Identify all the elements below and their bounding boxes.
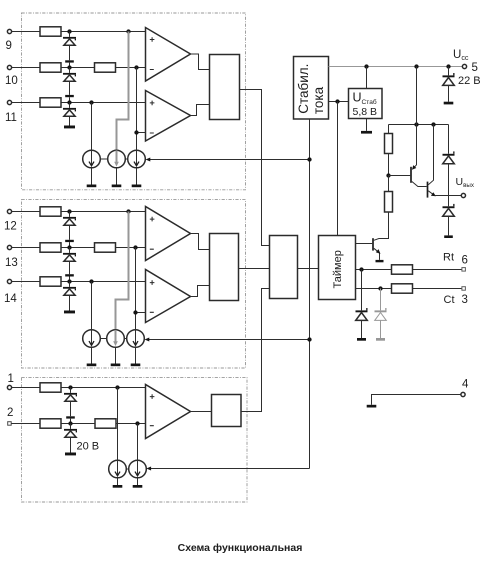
wire opamp U4 output to block A2 [191,286,210,297]
pin 6 terminal [462,268,466,272]
node on line 10 at zener chain [67,65,71,69]
wire timer to Ct resistor [356,288,392,290]
resistor R4 (vertical) [385,192,393,213]
arrow of current source I4 [89,330,94,346]
wire line 10 mid [61,67,95,69]
resistor R13 [40,243,61,252]
wire top rail of output stage [389,124,449,126]
wire I4 to I5 [100,338,106,340]
wire I2 to I3 [125,158,127,160]
wire (gray) line 12 to current source I5 [116,212,129,330]
dashed box: comparator group 1/2 [22,377,248,502]
svg-text:13: 13 [5,257,18,269]
wire Q2 emitter to Uout terminal [435,195,462,197]
svg-text:2: 2 [7,407,13,419]
wire pin 12 to opamp U3 + input [12,211,146,213]
wire pin 14 to opamp U4 + input [12,281,146,283]
zener VD8 20V (below line 2) [64,424,77,456]
zener VD11 (lower clamp) [443,204,455,235]
wire opamp U3 output to block A2 [191,234,210,250]
arrow of current source I8 [135,460,140,476]
opamp U3 [146,207,191,261]
wire block A3 output up to block A4 [241,289,270,412]
arrow of current source I5 (gray) [113,330,118,346]
resistor R11 [40,98,61,107]
zener VD7 (line 1 to line 2) [64,388,77,424]
wire block A2 output to block A4 [239,268,270,270]
node on line 13 at zener chain [67,245,71,249]
pin 14 terminal [7,279,11,283]
node A (base divider) [386,173,390,177]
resistor R2 [40,419,61,428]
wire feed opamp U4 - input [136,248,146,330]
current source I3 [128,150,146,168]
svg-text:10: 10 [5,75,18,87]
block A3 (logic of group 1/2) [212,395,242,427]
node on line 2 at zener chain [68,421,72,425]
ground under VD13 (gray) [376,338,385,341]
pin 4 terminal [461,392,465,396]
svg-text:Ct: Ct [444,294,455,306]
wire block A4 output to timer [298,268,319,270]
ground under clamp chain [444,235,453,238]
svg-text:5: 5 [472,62,478,74]
resistor R13b [95,243,116,252]
resistor R3 (vertical) [385,134,393,154]
wire rail to Ustab top [366,67,368,89]
block timer [319,236,356,300]
node opamp U2 - input [134,130,138,134]
wire node A down through R4 [388,176,390,192]
svg-text:Стабил.: Стабил. [296,64,311,114]
node Rt to clamp diode [359,267,363,271]
current source I4 [83,330,101,348]
wire line 11 to current source I1 [91,103,93,151]
svg-text:12: 12 [4,221,17,233]
block A2 (logic of group 12/13/14) [210,234,239,301]
zener VD6 (below line 14) [63,282,76,314]
transistor Q2 emitter with arrow [428,191,436,196]
ground under I1 [87,168,97,187]
pin 2 terminal [8,422,12,426]
current source I5 [107,330,125,348]
wire line 13 to opamp U3 - input [116,247,146,249]
block A1 (logic of group 9/10/11) [210,55,240,120]
pin 12 terminal [7,209,11,213]
svg-text:Uвых: Uвых [456,176,475,189]
wire line 2 to current source I8 [137,424,139,461]
wire line 2 mid [61,423,96,425]
svg-text:9: 9 [6,40,12,52]
pin 13 terminal [7,245,11,249]
node line 2 to current source I8 [135,421,139,425]
ground under Q3 emitter [376,260,384,262]
node rail to Ustab [364,64,368,68]
svg-text:20 В: 20 В [77,441,100,453]
wire to resistor R3 [388,125,390,134]
diode VD13 (Ct clamp, gray) [375,289,387,339]
svg-text:1: 1 [8,373,14,385]
pin 3 terminal [462,287,466,291]
wire (gray) line 9 to current source I2 [117,32,129,151]
resistor R10b [95,63,116,72]
svg-text:4: 4 [462,379,469,391]
svg-text:Таймер: Таймер [332,250,344,288]
wire opamp U2 output to block A1 [191,105,210,116]
transistor Q1 emitter with arrow [412,125,417,170]
wire pin 13 to resistor [12,247,40,249]
node line 13 to opamp U4 - feed [133,245,137,249]
wire block A1 output down to block A4 [240,90,270,246]
svg-text:тока: тока [311,86,326,114]
wire stabilizer to Ustab block [329,101,349,103]
current source I1 [83,150,101,168]
ground under I7 [113,478,123,488]
arrow of current source I7 [115,460,120,476]
wire pin 4 to ground [372,395,461,405]
wire opamp U5 output to block A3 [191,411,212,413]
opamp U5 [146,385,191,439]
zener VD4 (line 12 to line 13) [63,212,76,248]
wire line 14 to current source I4 [91,282,93,330]
ground under VD12 [357,338,366,341]
ground under I2 [112,168,122,187]
node on line 9 to current source feed [126,29,130,33]
wire pin 9 to opamp U1 + input [12,31,146,33]
resistor R12 [40,207,61,216]
wire line 1 to current source I7 [117,388,119,461]
arrow of current source I2 (gray) [114,150,119,166]
node rail to output transistors [414,64,418,68]
zener VD1 (line 9 to line 10) [63,32,76,68]
current source I7 [109,460,127,478]
opamp U2 [146,91,191,142]
wire line 13 mid [61,247,95,249]
resistor R6 (Ct line) [392,284,413,293]
ground under zener 22V [444,102,454,105]
ground under I5 [111,347,121,366]
opamp U1 [146,28,191,82]
block: current stabilizer [294,57,329,120]
pin 11 terminal [7,100,11,104]
resistor R1 [40,383,61,392]
ground under I8 [133,478,143,488]
wire line 10 to opamp U1 - input [116,67,146,69]
resistor R14 [40,277,61,286]
node opamp U4 - input [133,310,137,314]
wire Ct resistor to pin 3 [413,288,462,290]
node Ct to clamp diode [378,286,382,290]
node control bus group 1 [307,157,311,161]
node on line 12 to current source feed [126,209,130,213]
wire Ustab bottom to ground [366,119,368,131]
pin 9 terminal [7,29,11,33]
wire rail to output stage [416,67,418,125]
ground under Ustab [361,131,372,134]
transistor Q2 collector [428,125,433,185]
wire R3 to node A [388,154,390,176]
svg-text:Схема функциональная: Схема функциональная [178,542,303,554]
pin 5 terminal [462,64,466,68]
node on line 1 to current source I7 [115,385,119,389]
node line 10 to opamp U2 - feed [134,65,138,69]
node on line 9 at zener chain [67,29,71,33]
zener VD10 (upper clamp) [443,151,455,206]
current source I8 [129,460,147,478]
node on line 14 at zener chain [67,279,71,283]
current source I2 [108,150,126,168]
opamp U4 [146,270,191,323]
current source I6 [127,330,145,348]
arrow of current source I3 [134,150,139,166]
control wire into I6 with arrowhead [145,338,310,342]
dashed box: comparator group 9/10/11 [22,13,246,190]
zener VD3 (below line 11) [63,103,76,129]
wire pin 11 to opamp U2 + input [12,102,146,104]
node on line 14 to current source I4 [89,279,93,283]
node on line 11 at zener chain [67,100,71,104]
wire line 2 to opamp U5 - input [116,423,146,425]
wire (gray) Ucc rail [329,66,463,68]
svg-text:Ucc: Ucc [453,49,469,62]
transistor Q3 (npn) base bar [372,238,374,250]
arrow of current source I6 [133,330,138,346]
svg-text:22 В: 22 В [458,75,481,87]
zener VD5 (line 13 to line 14) [63,248,76,282]
node control bus group 2 [307,337,311,341]
node on line 11 to current source I1 [89,100,93,104]
node to timer [335,99,339,103]
dashed box: comparator group 12/13/14 [22,200,246,368]
transistor Q1 (pnp) base bar [410,167,412,183]
wire R4 to Q3 collector [374,212,389,240]
ground under I4 [87,347,97,366]
node output stage left [414,122,418,126]
wire I1 to I2 [100,158,107,160]
block A4 (combiner) [270,236,298,299]
wire output clamp chain [448,125,450,154]
pin 1 terminal [7,385,11,389]
resistor R5 (Rt line) [392,265,413,274]
block Ustab 5.8V [349,89,383,119]
wire timer to Q3 base [356,243,373,245]
node on line 1 at zener chain [68,385,72,389]
arrow of current source I1 [89,150,94,166]
ground of pin 4 [367,405,377,408]
transistor Q1 collector [412,182,427,187]
zener VD9 22V [443,67,455,102]
svg-text:6: 6 [462,255,468,267]
svg-text:Rt: Rt [443,252,454,264]
wire feed opamp U2 - input [137,68,146,151]
wire I7 to I8 [126,468,128,470]
svg-text:11: 11 [5,112,17,124]
wire pin 2 to resistor [11,423,39,425]
resistor R2b [95,419,116,428]
wire pin 10 to resistor [12,67,40,69]
transistor Q2 (npn) base bar [427,182,429,198]
control wire into I8 with arrowhead [146,467,309,471]
node output stage right [431,122,435,126]
resistor R9 [40,27,61,36]
svg-text:14: 14 [4,293,17,305]
ground under I6 [131,347,141,366]
zener VD2 (line 10 to line 11) [63,68,76,103]
pin 10 terminal [7,65,11,69]
wire Rt resistor to pin 6 [413,269,462,271]
Uout terminal [461,193,465,197]
svg-text:3: 3 [462,294,468,306]
svg-text:5,8 В: 5,8 В [353,106,378,118]
node rail to zener 22V [446,64,450,68]
wire opamp U1 output to block A1 [191,54,210,70]
resistor R10 [40,63,61,72]
wire I5 to I6 [124,338,126,340]
node on line 12 at zener chain [67,209,71,213]
wire node down to timer top [337,102,339,236]
ground under I3 [132,168,142,187]
transistor Q3 emitter with arrow [374,248,381,260]
wire timer to Rt resistor [356,269,392,271]
control wire into I3 with arrowhead [146,158,310,162]
wire stabilizer bottom to control bus [309,119,311,469]
wire pin 1 to opamp U5 + input [12,387,146,389]
wire node A to Q1 base [389,175,411,177]
diode VD12 (Rt clamp) [356,270,368,339]
